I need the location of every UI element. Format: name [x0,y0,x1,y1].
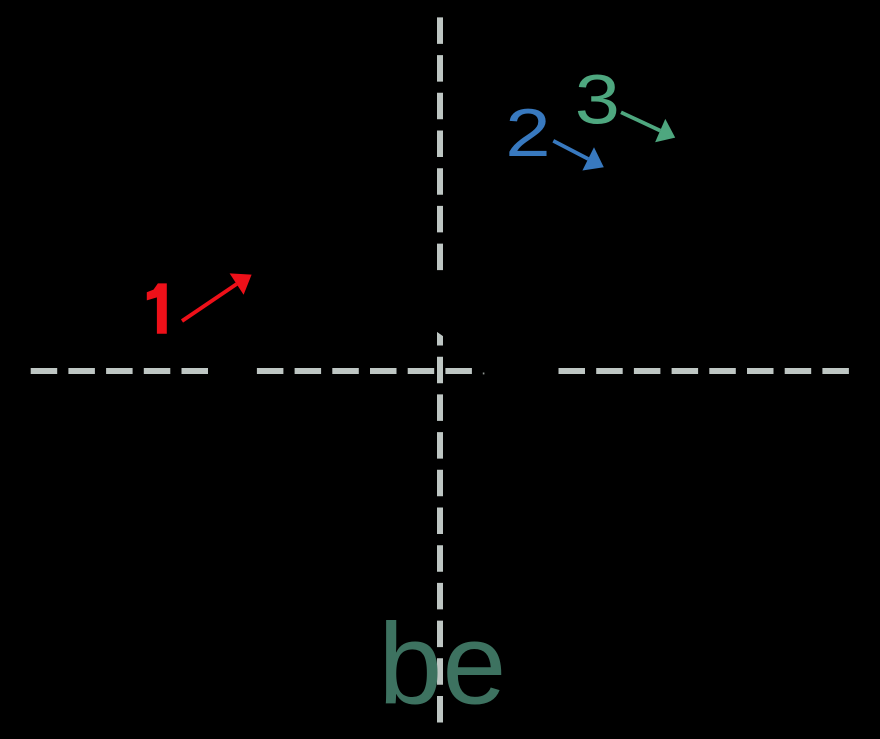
label 2 [505,94,550,170]
arrow 3 shaft [621,112,660,130]
occlusion mask over horizontal dashes n12-n13 [480,364,557,378]
occlusion mask over horizontal dash n5 [216,364,249,378]
arrow 2 head [582,147,603,170]
arrow 1 head [230,273,252,294]
arrow 1 shaft [182,284,237,321]
arrow 2 shaft [553,141,588,159]
label 1 (custom glyph) [147,283,167,333]
horizontal dashed axis line [31,368,849,374]
label 3 [575,61,620,139]
origin dot remnant [483,373,485,375]
svg-text:2: 2 [505,94,550,170]
svg-text:be: be [378,601,506,729]
occlusion mask hiding vertical dash n7 and cutting top of vertical dash n8 [434,272,446,338]
arrow 3 head [655,119,675,142]
svg-text:3: 3 [575,61,620,139]
vertical dashed axis line [437,17,443,723]
